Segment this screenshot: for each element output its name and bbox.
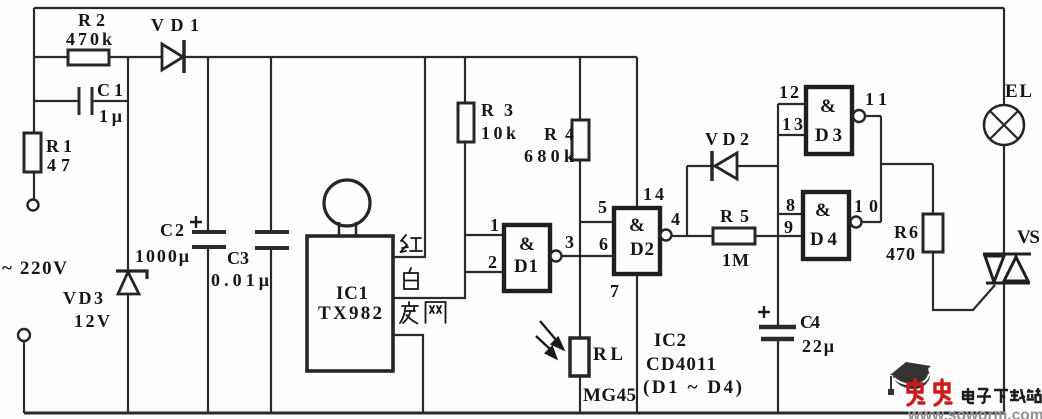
svg-text:VD3: VD3 <box>63 288 103 308</box>
svg-text:5: 5 <box>598 197 607 217</box>
svg-text:(D1 ~ D4): (D1 ~ D4) <box>643 377 742 398</box>
svg-text:47: 47 <box>47 155 70 175</box>
svg-text:IC1: IC1 <box>336 283 368 304</box>
svg-text:1: 1 <box>490 215 499 235</box>
svg-text:VD2: VD2 <box>705 129 749 149</box>
svg-text:C4: C4 <box>800 312 820 332</box>
svg-text:&: & <box>820 96 836 117</box>
svg-text:IC2: IC2 <box>654 330 686 351</box>
svg-text:~ 220V: ~ 220V <box>2 258 67 279</box>
svg-text:10k: 10k <box>481 123 516 143</box>
svg-text:680k: 680k <box>524 146 574 166</box>
svg-text:D1: D1 <box>514 256 538 277</box>
svg-text:&: & <box>815 200 831 221</box>
svg-text:&: & <box>629 215 645 236</box>
svg-text:8: 8 <box>786 195 795 215</box>
svg-text:CD4011: CD4011 <box>646 354 716 375</box>
svg-text:0.01μ: 0.01μ <box>211 270 269 290</box>
svg-text:RL: RL <box>593 344 623 365</box>
svg-text:C1: C1 <box>97 80 123 100</box>
svg-text:TX982: TX982 <box>318 303 382 324</box>
svg-text:7: 7 <box>610 281 619 301</box>
svg-text:10: 10 <box>854 196 878 216</box>
svg-text:C3: C3 <box>227 248 249 268</box>
svg-text:R3: R3 <box>481 100 513 120</box>
svg-text:R4: R4 <box>544 124 574 144</box>
svg-text:2: 2 <box>488 252 497 272</box>
svg-text:12: 12 <box>779 82 799 102</box>
svg-text:1M: 1M <box>722 250 749 270</box>
svg-text:1μ: 1μ <box>99 106 122 126</box>
svg-text:1000μ: 1000μ <box>135 246 189 266</box>
svg-text:VS: VS <box>1017 227 1040 248</box>
svg-text:&: & <box>519 234 535 255</box>
svg-text:D2: D2 <box>630 239 654 260</box>
svg-text:R5: R5 <box>720 206 749 226</box>
svg-text:11: 11 <box>865 89 887 109</box>
svg-text:9: 9 <box>784 217 793 237</box>
svg-text:MG45: MG45 <box>583 385 636 406</box>
svg-text:22μ: 22μ <box>802 336 834 356</box>
svg-text:12V: 12V <box>74 311 110 331</box>
svg-text:R6: R6 <box>894 222 918 242</box>
svg-text:470: 470 <box>886 244 915 264</box>
svg-text:R1: R1 <box>46 136 72 156</box>
svg-text:EL: EL <box>1005 81 1032 102</box>
svg-text:D3: D3 <box>815 125 842 146</box>
svg-text:4: 4 <box>671 209 680 229</box>
svg-text:R2: R2 <box>78 10 105 30</box>
svg-text:470k: 470k <box>66 29 112 49</box>
svg-text:14: 14 <box>643 184 664 204</box>
svg-text:C2: C2 <box>160 220 184 240</box>
svg-text:VD1: VD1 <box>151 15 199 35</box>
svg-text:6: 6 <box>599 234 608 254</box>
svg-text:www.soworm.com: www.soworm.com <box>907 407 1042 419</box>
svg-text:3: 3 <box>565 232 574 252</box>
svg-text:13: 13 <box>782 114 803 134</box>
